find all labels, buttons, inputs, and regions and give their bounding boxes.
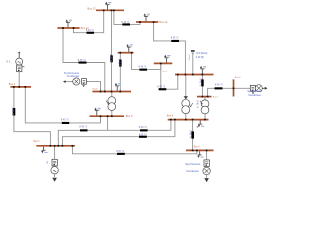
breaker line L1-2 — [13, 108, 16, 116]
svg-text:Bus 1: Bus 1 — [9, 83, 16, 86]
svg-text:84576: 84576 — [171, 37, 180, 39]
wire synchronous condenser bus 8 — [234, 87, 250, 89]
svg-text:19.0 [Mvar]: 19.0 [Mvar] — [196, 52, 208, 55]
wire shunt capacitor C9 — [192, 54, 194, 74]
wire transformer branch T7-9 — [201, 75, 203, 96]
bus 1 — [10, 86, 31, 88]
bus 11 — [118, 52, 134, 54]
svg-text:Condenser: Condenser — [186, 169, 199, 173]
junction dots bus 11 — [119, 52, 121, 54]
wire line L6-11 — [119, 53, 121, 91]
svg-text:84576: 84576 — [61, 120, 70, 122]
junction dots bus 10 — [160, 63, 162, 65]
breaker line L13-14 — [122, 23, 130, 25]
bus 3 — [186, 149, 214, 151]
svg-text:Synchronous: Synchronous — [185, 162, 201, 166]
svg-text:Bus 3: Bus 3 — [194, 147, 201, 149]
junction dots bus 1 — [13, 86, 15, 88]
junction dots bus 6 — [100, 91, 102, 93]
wire line L2-4 — [62, 120, 174, 145]
breaker line L6-12 — [79, 62, 87, 64]
bus 5 — [90, 115, 125, 117]
svg-text:84576: 84576 — [11, 108, 13, 117]
load bus 14 — [144, 16, 148, 21]
svg-text:0.19 [S]: 0.19 [S] — [196, 57, 204, 59]
wire line L6-13 — [111, 11, 113, 91]
load bus 11 — [127, 47, 131, 52]
wire transformer T4-7 stubs — [204, 97, 206, 100]
svg-text:G 1: G 1 — [6, 60, 11, 63]
wire line L3-4 — [192, 120, 194, 150]
junction dots bus 2 — [50, 145, 52, 147]
svg-text:Bus 4: Bus 4 — [167, 114, 174, 117]
svg-text:84576: 84576 — [139, 134, 148, 136]
wire line L9-10 — [161, 64, 178, 89]
svg-text:84576: 84576 — [139, 67, 148, 69]
svg-text:84576: 84576 — [188, 130, 190, 139]
wire line L2-5 — [58, 117, 107, 145]
svg-text:Bus 2: Bus 2 — [34, 141, 41, 143]
breaker line L2-4 — [139, 136, 147, 138]
svg-text:Bus 8: Bus 8 — [235, 77, 241, 79]
generator G2 — [52, 159, 57, 166]
breaker transformer T7-8 — [215, 87, 223, 89]
wire line L6-12 — [63, 29, 105, 91]
svg-text:Condenser: Condenser — [248, 93, 261, 97]
bus 9 — [175, 74, 214, 76]
load bus 5 — [95, 111, 99, 116]
bus 6 — [92, 91, 131, 93]
svg-text:84576: 84576 — [118, 59, 120, 68]
breaker line L10-11 — [139, 69, 147, 71]
junction dots bus 14 — [139, 21, 141, 23]
load bus 6 — [115, 86, 119, 91]
svg-text:Bus 9: Bus 9 — [163, 71, 168, 73]
bus 10 — [154, 62, 173, 64]
breaker line L6-11 — [119, 60, 122, 67]
svg-text:Bus 5: Bus 5 — [126, 114, 133, 118]
breaker line L2-5 — [80, 129, 88, 131]
load bus 4 — [198, 120, 202, 124]
breaker line L3-4 — [191, 131, 194, 138]
svg-text:Bus 7: Bus 7 — [213, 97, 219, 99]
wire generator G1 to bus 1 — [18, 71, 20, 86]
bus 13 — [96, 9, 124, 11]
breaker line L6-13 — [110, 55, 113, 62]
synchronous condenser bus 6 — [63, 80, 66, 83]
breaker line L1-5 — [62, 122, 69, 124]
wire synchronous condenser bus 6 — [86, 82, 100, 91]
bus 12 — [57, 27, 79, 29]
svg-text:84576: 84576 — [109, 54, 111, 63]
load bus 12 — [66, 22, 70, 27]
wire line L10-11 — [132, 53, 161, 69]
svg-text:Synchronous: Synchronous — [247, 89, 263, 93]
load bus 3 — [198, 151, 202, 155]
junction dots bus 3 — [192, 150, 194, 152]
svg-text:84576: 84576 — [196, 100, 198, 109]
synchronous condenser bus 3 — [204, 160, 209, 167]
bus 2 — [36, 145, 75, 147]
svg-text:84576: 84576 — [122, 22, 131, 24]
wire synchronous condenser bus 3 stubs — [206, 151, 208, 160]
shunt capacitor C9 — [191, 50, 195, 52]
transformer T5-6 — [108, 97, 116, 105]
breaker transformer T7-9 — [201, 79, 204, 86]
svg-text:84576: 84576 — [139, 127, 148, 129]
svg-text:4 Mvar: 4 Mvar — [188, 54, 191, 60]
load bus 2 — [42, 147, 46, 151]
wire transformer T5-6 stubs — [111, 92, 113, 97]
svg-text:84576: 84576 — [198, 79, 200, 88]
junction dots bus 4 — [170, 119, 172, 121]
wire line L9-14 — [154, 23, 186, 74]
svg-text:Synchronous: Synchronous — [64, 71, 80, 75]
svg-text:Bus 14: Bus 14 — [159, 20, 168, 24]
junction dots bus 7 — [202, 96, 204, 98]
transformer T4-9 — [184, 96, 189, 99]
breaker line L2-3 — [117, 153, 125, 155]
bus 7 — [197, 96, 212, 98]
load bus 10 — [165, 58, 169, 63]
breaker line L9-14 — [171, 40, 179, 42]
svg-text:84576: 84576 — [116, 151, 125, 153]
transformer T4-7 — [201, 100, 209, 108]
junction dots bus 9 — [177, 74, 179, 76]
svg-text:84576: 84576 — [78, 60, 87, 62]
breaker line L12-13 — [87, 32, 95, 34]
load bus 9 — [200, 69, 204, 74]
wire line L2-3 — [72, 145, 196, 154]
load bus 13 — [106, 5, 110, 10]
svg-text:Bus 13: Bus 13 — [88, 6, 97, 10]
bus 14 — [136, 21, 158, 23]
bus 4 — [168, 119, 209, 121]
svg-text:84576: 84576 — [215, 84, 224, 86]
svg-text:Condenser: Condenser — [67, 74, 80, 78]
wire transformer branch T7-8 — [208, 88, 233, 96]
wire line L4-5 — [108, 120, 171, 130]
junction dots bus 12 — [62, 27, 64, 29]
bus 8 — [233, 79, 235, 96]
wire line L1-2 bus1 side — [14, 88, 51, 146]
svg-text:84576: 84576 — [79, 127, 88, 129]
synchronous condenser bus 8 — [250, 85, 255, 91]
svg-text:84576: 84576 — [157, 86, 166, 88]
wire line L1-5 — [25, 88, 100, 123]
wire transformer T4-9 stubs — [185, 75, 187, 99]
wire generator G2 stubs — [54, 147, 56, 160]
junction dots bus 5 — [100, 115, 102, 117]
generator G1 — [18, 52, 21, 54]
wire line L13-14 — [114, 11, 140, 25]
wire line L12-13 — [74, 11, 104, 33]
junction dots bus 13 — [103, 9, 105, 11]
breaker line L4-5 — [140, 129, 148, 131]
junction dots bus 8 — [233, 87, 235, 89]
svg-text:84576: 84576 — [86, 30, 95, 32]
breaker line L9-10 — [159, 88, 167, 90]
svg-text:Bus6: Bus6 — [93, 89, 99, 91]
